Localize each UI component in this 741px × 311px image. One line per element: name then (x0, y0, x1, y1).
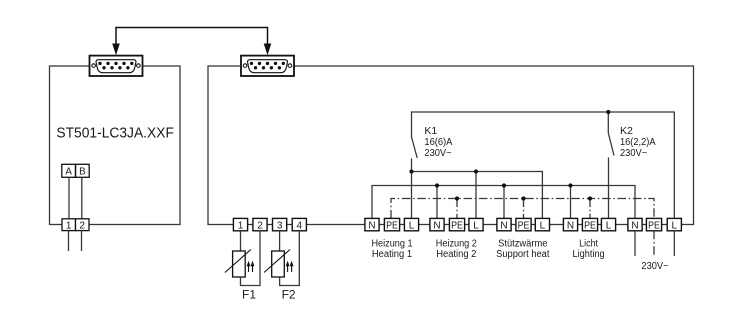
svg-text:F2: F2 (282, 287, 296, 301)
svg-text:Heizung 1: Heizung 1 (371, 238, 412, 249)
svg-text:L: L (473, 220, 479, 231)
svg-text:1: 1 (238, 220, 244, 231)
svg-text:230V~: 230V~ (641, 261, 668, 272)
svg-text:A: A (65, 167, 72, 178)
svg-text:L: L (672, 220, 678, 231)
svg-text:230V~: 230V~ (424, 148, 451, 159)
svg-text:B: B (79, 167, 86, 178)
svg-text:2: 2 (79, 220, 85, 231)
svg-text:Heating 1: Heating 1 (372, 249, 413, 260)
svg-text:Heizung 2: Heizung 2 (436, 238, 477, 249)
svg-text:PE: PE (518, 220, 530, 231)
svg-text:Licht: Licht (579, 238, 598, 249)
svg-text:1: 1 (66, 220, 72, 231)
svg-text:4: 4 (297, 220, 303, 231)
svg-text:PE: PE (451, 220, 463, 231)
svg-text:16(6)A: 16(6)A (424, 137, 452, 148)
svg-text:F1: F1 (242, 287, 256, 301)
svg-text:3: 3 (277, 220, 283, 231)
svg-text:ST501-LC3JA.XXF: ST501-LC3JA.XXF (56, 125, 173, 142)
svg-text:K1: K1 (424, 126, 437, 137)
svg-text:N: N (433, 220, 440, 231)
svg-text:Stützwärme: Stützwärme (498, 238, 548, 249)
svg-text:K2: K2 (620, 126, 633, 137)
svg-text:PE: PE (648, 220, 660, 231)
svg-text:N: N (500, 220, 507, 231)
svg-text:L: L (540, 220, 546, 231)
svg-text:N: N (631, 220, 638, 231)
svg-text:Heating 2: Heating 2 (436, 249, 477, 260)
svg-text:PE: PE (386, 220, 398, 231)
svg-text:N: N (368, 220, 375, 231)
svg-text:2: 2 (257, 220, 263, 231)
svg-text:Lighting: Lighting (573, 249, 605, 260)
svg-text:Support heat: Support heat (496, 249, 550, 260)
svg-text:230V~: 230V~ (620, 148, 647, 159)
svg-text:L: L (409, 220, 415, 231)
svg-text:PE: PE (584, 220, 596, 231)
svg-text:16(2,2)A: 16(2,2)A (620, 137, 656, 148)
svg-text:L: L (606, 220, 612, 231)
svg-text:N: N (567, 220, 574, 231)
